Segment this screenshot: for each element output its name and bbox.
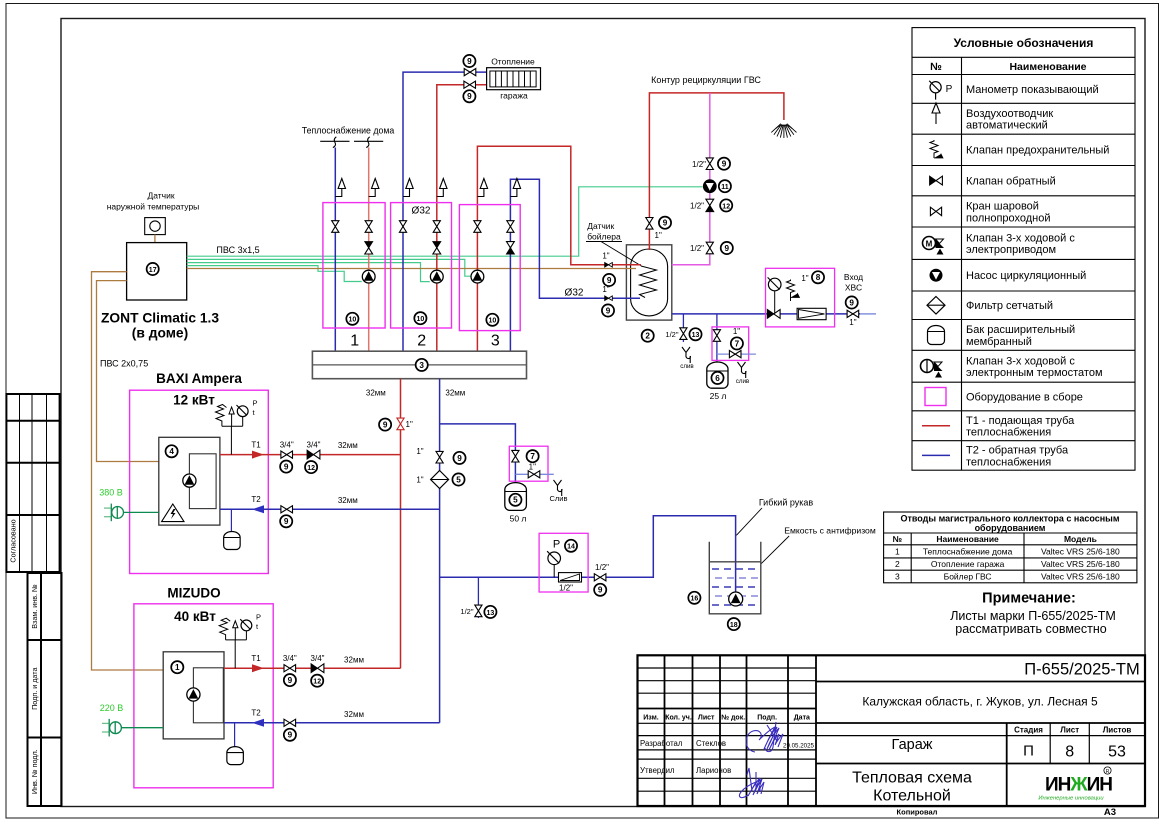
svg-text:Стадия: Стадия (1014, 725, 1043, 734)
signature Утвердил (739, 768, 764, 798)
legend table Условные обозначения (912, 28, 1135, 471)
svg-text:1": 1" (602, 252, 609, 261)
pressure reducer XBC (797, 308, 826, 319)
svg-text:32мм: 32мм (344, 710, 364, 719)
svg-text:Листов: Листов (1103, 725, 1132, 734)
svg-text:гаража: гаража (500, 91, 528, 101)
label 9 (463, 55, 475, 67)
branch to 25l tank (716, 314, 718, 364)
svg-text:13: 13 (692, 332, 700, 339)
svg-text:9: 9 (722, 160, 727, 169)
svg-text:Гибкий рукав: Гибкий рукав (759, 498, 814, 508)
svg-text:3: 3 (895, 572, 900, 582)
equipment box pressure control (539, 533, 588, 592)
legend symbol: check valve (930, 176, 943, 185)
svg-text:Копировал: Копировал (897, 808, 938, 817)
valve XBC inlet (846, 296, 858, 308)
svg-text:Т2 - обратная труба: Т2 - обратная труба (966, 445, 1069, 457)
check valve recirc (706, 199, 714, 211)
svg-text:9: 9 (383, 421, 388, 430)
svg-text:3/4": 3/4" (280, 441, 294, 450)
svg-text:1/2": 1/2" (460, 607, 473, 616)
label 4 (166, 445, 178, 457)
svg-text:4: 4 (169, 447, 174, 456)
valve on T2 riser (436, 451, 443, 463)
svg-text:Клапан 3-х ходовой с: Клапан 3-х ходовой с (966, 355, 1075, 367)
svg-text:9: 9 (284, 463, 289, 472)
valve MIZUDO T2 (284, 719, 296, 726)
outdoor temperature sensor (145, 218, 166, 235)
legend symbol: 3-way valve with electric drive (923, 237, 945, 255)
valve radiator return (464, 81, 476, 88)
svg-text:12: 12 (313, 679, 321, 686)
svg-text:Датчик: Датчик (147, 191, 174, 201)
label 1 (171, 661, 183, 673)
svg-text:Дата: Дата (794, 715, 810, 722)
svg-text:Изм.: Изм. (643, 715, 659, 722)
equipment box 25l (712, 327, 749, 361)
svg-text:3: 3 (419, 361, 424, 370)
wire power to MIZUDO (121, 727, 163, 729)
pipe T2 garage heating riser group2 (403, 72, 487, 351)
svg-text:Фильтр сетчатый: Фильтр сетчатый (966, 300, 1053, 312)
valve on DHW supply to boiler (646, 218, 653, 230)
svg-text:10: 10 (489, 318, 497, 325)
svg-text:1: 1 (895, 546, 900, 556)
svg-text:Утвердил: Утвердил (640, 766, 675, 775)
svg-text:9: 9 (606, 306, 611, 315)
pipe DHW recirculation red (649, 93, 784, 250)
svg-text:2: 2 (645, 332, 650, 341)
svg-text:3/4": 3/4" (307, 441, 321, 450)
pump BAXI (183, 474, 196, 487)
pipe T1 boiler riser group3 (477, 146, 626, 351)
pipe DHW recirculation pink (672, 93, 710, 265)
svg-text:наружной температуры: наружной температуры (107, 202, 200, 212)
svg-text:1": 1" (406, 420, 413, 429)
svg-text:Т1: Т1 (251, 441, 261, 450)
svg-text:MIZUDO: MIZUDO (167, 586, 220, 601)
svg-text:теплоснабжения: теплоснабжения (966, 427, 1051, 439)
svg-text:1": 1" (602, 285, 609, 294)
pipe T1 into boiler left (571, 264, 641, 266)
MIZUDO pressure/temp sensors (226, 628, 247, 668)
svg-text:Отопление гаража: Отопление гаража (931, 559, 1005, 569)
svg-text:9: 9 (288, 731, 293, 740)
wire green ZONT to pump group 3 (187, 259, 471, 276)
drain line 25l (717, 353, 756, 355)
pipe fill line (440, 516, 736, 593)
pump group 1 box (323, 203, 385, 328)
pump group 3 box (459, 205, 520, 331)
svg-text:1/2": 1/2" (665, 330, 678, 339)
svg-text:1: 1 (350, 333, 359, 350)
flow arrow T1 (252, 664, 264, 672)
svg-text:32мм: 32мм (344, 656, 364, 665)
controller U17 ZONT box (127, 243, 187, 300)
power plug 220V (102, 719, 122, 737)
svg-text:32мм: 32мм (338, 496, 358, 505)
svg-text:Согласовано: Согласовано (9, 519, 18, 562)
title block header texts (640, 714, 815, 776)
svg-text:Т2: Т2 (251, 709, 261, 718)
svg-text:Контур рециркуляции ГВС: Контур рециркуляции ГВС (651, 75, 761, 85)
wire brown ZONT to MIZUDO (92, 272, 164, 670)
svg-text:1": 1" (801, 274, 808, 283)
svg-text:ZONT Climatic 1.3: ZONT Climatic 1.3 (101, 311, 219, 326)
svg-text:32мм: 32мм (366, 389, 386, 398)
svg-text:18: 18 (730, 622, 738, 629)
pump group2 (430, 270, 443, 283)
labels 10 on groups (346, 313, 358, 325)
svg-text:(в доме): (в доме) (132, 326, 188, 341)
svg-text:оборудованием: оборудованием (975, 523, 1046, 533)
svg-text:Слив: Слив (550, 494, 568, 503)
svg-text:слив: слив (680, 363, 694, 370)
ball valves on group risers (332, 221, 339, 233)
svg-text:1/2": 1/2" (595, 563, 609, 572)
svg-text:Лист: Лист (698, 715, 715, 722)
antifreeze tank container (709, 542, 761, 614)
wire brown ZONT to boiler sensor line (187, 268, 636, 270)
boiler MIZUDO internal circuit (193, 668, 223, 723)
valve on T1 riser (397, 418, 404, 430)
svg-text:1/2": 1/2" (690, 244, 704, 253)
svg-text:бойлера: бойлера (587, 232, 621, 242)
svg-text:40 кВт: 40 кВт (174, 609, 216, 624)
flow arrow T2 (252, 719, 264, 727)
svg-text:Бойлер ГВС: Бойлер ГВС (944, 572, 992, 582)
svg-text:12: 12 (722, 203, 730, 210)
svg-text:Условные обозначения: Условные обозначения (954, 36, 1094, 50)
valve recirc top (706, 158, 713, 170)
valve fill line (594, 574, 606, 581)
pipe break marks (320, 137, 383, 148)
wire power to BAXI (124, 511, 159, 513)
svg-text:Модель: Модель (1064, 534, 1097, 544)
svg-text:1": 1" (529, 463, 536, 472)
pump group1 (362, 270, 375, 283)
svg-text:Инженерные инновации: Инженерные инновации (1038, 796, 1104, 802)
strainer filter on T2 riser (431, 471, 449, 489)
label 3 collector (416, 359, 428, 371)
svg-text:ХВС: ХВС (845, 283, 862, 293)
svg-text:Калужская область, г. Жуков, у: Калужская область, г. Жуков, ул. Лесная … (862, 695, 1098, 709)
pipe T2 BAXI return (220, 508, 440, 510)
svg-text:13: 13 (487, 610, 495, 617)
legend symbol: manometer (929, 81, 941, 93)
title block frame (638, 655, 1146, 806)
valve 25l branch (713, 330, 720, 342)
pump group 2 box (391, 203, 452, 328)
svg-text:№: № (893, 534, 903, 544)
svg-text:П: П (1023, 743, 1034, 760)
legend symbol: safety valve (930, 140, 943, 158)
svg-text:9: 9 (284, 517, 289, 526)
drain branch on fill line (477, 577, 479, 618)
svg-text:Бак расширительный: Бак расширительный (966, 324, 1075, 336)
svg-text:380 В: 380 В (99, 488, 123, 498)
boiler MIZUDO assembled box (134, 604, 273, 788)
svg-text:9: 9 (725, 244, 730, 253)
air vents on risers (335, 179, 345, 197)
svg-text:Т1: Т1 (251, 654, 261, 663)
svg-text:ПВС 2х0,75: ПВС 2х0,75 (100, 359, 148, 369)
svg-text:Гараж: Гараж (892, 737, 933, 753)
svg-text:1/2": 1/2" (692, 160, 706, 169)
svg-text:2: 2 (417, 333, 426, 350)
valve radiator supply (464, 69, 476, 76)
pipe T1 main riser (400, 379, 402, 669)
pump recirculation (703, 180, 716, 193)
svg-text:9: 9 (663, 219, 668, 228)
pump MIZUDO (187, 688, 200, 701)
svg-text:Клапан предохранительный: Клапан предохранительный (966, 145, 1109, 157)
svg-text:Манометр показывающий: Манометр показывающий (966, 84, 1099, 96)
svg-text:12: 12 (307, 465, 315, 472)
pump group3 (471, 270, 484, 283)
BAXI pressure/temp sensors (222, 414, 243, 455)
svg-text:А3: А3 (1104, 807, 1116, 818)
valve boiler T2 1 inch (605, 296, 613, 301)
equipment box cold water inlet (766, 268, 835, 327)
svg-text:8: 8 (816, 273, 821, 282)
valve MIZUDO T1 (284, 665, 296, 672)
svg-text:Вход: Вход (844, 272, 863, 282)
svg-text:Датчик: Датчик (587, 221, 614, 231)
svg-text:Воздухоотводчик: Воздухоотводчик (966, 108, 1053, 120)
svg-text:1": 1" (849, 318, 856, 327)
radiator garage heating (487, 68, 541, 90)
svg-text:3: 3 (491, 333, 500, 350)
manometer fill line (547, 551, 560, 564)
expansion tank MIZUDO (234, 723, 236, 747)
svg-text:Ларионов: Ларионов (696, 766, 731, 775)
svg-text:BAXI Ampera: BAXI Ampera (156, 371, 242, 386)
svg-text:Котельной: Котельной (873, 787, 951, 804)
svg-text:Р: Р (946, 84, 953, 95)
valve BAXI T2 (281, 506, 293, 513)
valve BAXI T1 (281, 451, 293, 458)
pipe T2 riser group1 (334, 148, 336, 352)
stamp: approval grid (Согласовано) (6, 394, 59, 572)
legend symbol: circulation pump (930, 269, 942, 281)
svg-text:Инв. № подл.: Инв. № подл. (30, 749, 39, 794)
svg-text:3/4": 3/4" (311, 654, 325, 663)
svg-text:32мм: 32мм (445, 389, 465, 398)
valve recirc bottom (706, 242, 713, 254)
DHW boiler tank (626, 245, 671, 320)
svg-text:Т1 - подающая труба: Т1 - подающая труба (966, 415, 1075, 427)
drain line 50l (515, 473, 553, 475)
svg-text:7: 7 (735, 339, 740, 348)
boiler BAXI assembled box (130, 390, 269, 573)
svg-text:3/4": 3/4" (283, 654, 297, 663)
svg-text:мембранный: мембранный (966, 336, 1032, 348)
svg-text:1/2": 1/2" (690, 202, 704, 211)
pipe to 50l tank (440, 424, 516, 485)
boiler BAXI internal circuit (189, 454, 216, 509)
svg-text:R: R (1106, 769, 1110, 775)
pump in antifreeze tank (729, 592, 743, 606)
svg-text:Оборудование в сборе: Оборудование в сборе (966, 391, 1083, 403)
svg-text:теплоснабжения: теплоснабжения (966, 456, 1051, 468)
svg-text:Р: Р (256, 613, 261, 622)
svg-text:Т2: Т2 (251, 495, 261, 504)
safety valve XBC (787, 280, 800, 298)
svg-text:электроприводом: электроприводом (966, 244, 1056, 256)
svg-text:№ док.: № док. (721, 714, 745, 722)
svg-text:Клапан обратный: Клапан обратный (966, 175, 1056, 187)
svg-text:9: 9 (467, 57, 472, 66)
legend symbol: T2 return pipe (blue) (922, 454, 950, 456)
label 16 (688, 592, 700, 604)
expansion tank BAXI (230, 509, 232, 531)
flow arrow T2 (252, 505, 264, 513)
boiler BAXI body (159, 437, 220, 525)
svg-text:50 л: 50 л (510, 514, 527, 524)
svg-text:Клапан 3-х ходовой с: Клапан 3-х ходовой с (966, 232, 1075, 244)
shower head (771, 124, 796, 138)
svg-text:10: 10 (417, 316, 425, 323)
svg-text:М: М (926, 240, 933, 249)
svg-text:220 В: 220 В (100, 703, 124, 713)
drain branch at boiler (682, 314, 684, 342)
drain symbol 25l (736, 362, 750, 385)
legend symbol: strainer filter (927, 297, 945, 315)
svg-text:9: 9 (457, 454, 462, 463)
warning triangle (162, 504, 184, 522)
svg-text:1": 1" (416, 447, 423, 456)
svg-text:P: P (553, 539, 560, 551)
svg-text:Valtec VRS 25/6-180: Valtec VRS 25/6-180 (1041, 572, 1120, 582)
svg-text:№: № (930, 61, 942, 73)
svg-text:1": 1" (733, 327, 740, 336)
svg-text:Теплоснабжение дома: Теплоснабжение дома (923, 546, 1013, 556)
collector manifold (312, 351, 526, 379)
wire green ZONT to recirculation pump (187, 187, 703, 256)
svg-text:Стеклов: Стеклов (696, 739, 726, 748)
svg-text:Подп. и дата: Подп. и дата (30, 668, 39, 710)
svg-text:Насос циркуляционный: Насос циркуляционный (966, 270, 1086, 282)
svg-text:Подп.: Подп. (757, 715, 777, 722)
legend symbol: T1 supply pipe (red) (922, 425, 950, 427)
label 2 boiler (642, 330, 654, 342)
valve boiler T1 1 inch (605, 263, 613, 268)
valve 50l (512, 450, 519, 462)
pressure reducer fill line (559, 573, 582, 582)
check valve group1 (365, 242, 373, 254)
svg-text:Взам. инв. №: Взам. инв. № (30, 584, 39, 629)
svg-text:ПВС 3х1,5: ПВС 3х1,5 (216, 245, 259, 255)
svg-text:25 л: 25 л (710, 391, 727, 401)
svg-text:9: 9 (598, 586, 603, 595)
legend symbol: ball valve (930, 207, 941, 215)
svg-text:Valtec VRS 25/6-180: Valtec VRS 25/6-180 (1041, 559, 1120, 569)
wire green ZONT to pump group 1 (187, 266, 362, 282)
safety valve BAXI (216, 405, 227, 427)
svg-text:29.05.2025: 29.05.2025 (783, 743, 815, 750)
svg-text:8: 8 (1065, 744, 1074, 761)
expansion tank 50l (505, 483, 527, 511)
expansion tank 25l (707, 362, 728, 388)
manometer XBC (768, 277, 781, 290)
pipe T2 main riser (439, 379, 441, 723)
check valve group2 (433, 242, 441, 254)
svg-text:Отводы магистрального коллекто: Отводы магистрального коллектора с насос… (900, 514, 1119, 524)
drain symbol (680, 347, 694, 370)
svg-text:Кран шаровой: Кран шаровой (966, 201, 1039, 213)
svg-text:1/2": 1/2" (559, 584, 573, 593)
legend symbol: air vent (932, 103, 940, 124)
svg-text:Р: Р (253, 399, 258, 408)
svg-text:Ø32: Ø32 (565, 288, 584, 299)
svg-text:5: 5 (456, 475, 461, 484)
svg-text:16: 16 (691, 596, 699, 603)
pipe T2 MIZUDO return (224, 722, 440, 724)
check valve BAXI T1 (307, 450, 320, 459)
svg-text:Лист: Лист (1060, 725, 1079, 734)
safety valve MIZUDO (219, 618, 230, 640)
legend symbol: assembled equipment (magenta box) (925, 388, 946, 406)
table Отводы магистрального коллектора (884, 512, 1137, 583)
svg-text:Разработал: Разработал (640, 739, 683, 748)
svg-text:2: 2 (895, 559, 900, 569)
drain symbol 50l (550, 480, 568, 503)
svg-text:5: 5 (513, 496, 518, 505)
wire sensor to ZONT (154, 235, 156, 243)
svg-text:автоматический: автоматический (966, 120, 1048, 132)
label 9 (463, 90, 475, 102)
svg-text:7: 7 (530, 452, 535, 461)
svg-text:Отопление: Отопление (491, 57, 535, 67)
logo ИНЖИН (1038, 767, 1112, 802)
pipe T1 BAXI outlet (220, 454, 401, 456)
boiler MIZUDO body (163, 652, 224, 739)
pipe T1 garage heating riser group2 (437, 85, 487, 352)
svg-text:10: 10 (349, 317, 357, 324)
legend symbol: membrane expansion tank (928, 326, 945, 345)
svg-text:32мм: 32мм (338, 441, 358, 450)
power plug 380V (104, 504, 124, 522)
antifreeze liquid dashes (712, 569, 758, 605)
stamp: Взам. инв. № (28, 573, 62, 640)
svg-text:Ø32: Ø32 (412, 206, 431, 217)
stamp: Подп. и дата (28, 640, 62, 738)
svg-text:12 кВт: 12 кВт (173, 393, 215, 408)
svg-text:14: 14 (567, 544, 575, 551)
svg-text:9: 9 (607, 276, 612, 285)
svg-text:Теплоснабжение дома: Теплоснабжение дома (302, 126, 395, 136)
pipe T1 riser group1 (368, 148, 370, 352)
check valve group3 (507, 242, 515, 254)
svg-text:Емкость с антифризом: Емкость с антифризом (784, 526, 876, 536)
check valve MIZUDO T1 (311, 664, 324, 673)
svg-text:Листы марки П-655/2025-ТМ: Листы марки П-655/2025-ТМ (950, 609, 1116, 623)
label 17 (147, 263, 159, 275)
stamp: Инв. № подл. (28, 738, 62, 807)
svg-text:1: 1 (175, 663, 180, 672)
equipment box 50l (509, 446, 548, 481)
signature Разработал (746, 722, 783, 752)
svg-text:Наименование: Наименование (936, 534, 999, 544)
legend symbol: 3-way valve with electronic thermostat (921, 360, 943, 378)
svg-text:ИНЖИН: ИНЖИН (1045, 775, 1112, 796)
svg-text:Кол. уч.: Кол. уч. (665, 715, 692, 722)
wire green ZONT to pump group 2 (187, 263, 430, 282)
svg-text:Примечание:: Примечание: (982, 591, 1076, 607)
svg-text:17: 17 (149, 267, 157, 274)
